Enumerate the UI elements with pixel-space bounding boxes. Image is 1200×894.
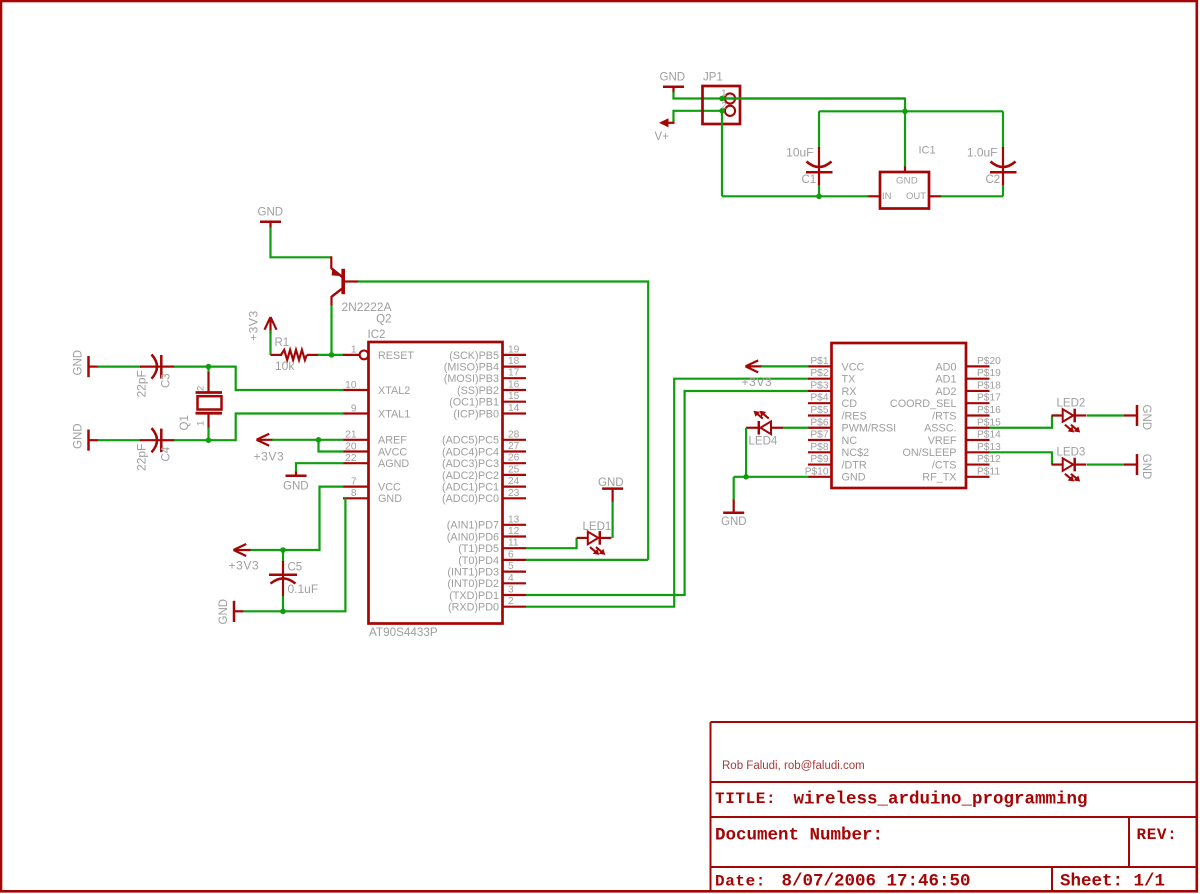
svg-text:P$8: P$8 <box>810 442 828 453</box>
svg-text:28: 28 <box>508 429 520 440</box>
svg-text:(MOSI)PB3: (MOSI)PB3 <box>444 373 499 385</box>
svg-text:+3V3: +3V3 <box>229 558 260 572</box>
svg-text:25: 25 <box>508 464 520 475</box>
svg-text:NC$2: NC$2 <box>842 447 870 459</box>
svg-text:(SCK)PB5: (SCK)PB5 <box>449 350 499 362</box>
svg-text:(T0)PD4: (T0)PD4 <box>458 555 499 567</box>
svg-text:(AIN1)PD7: (AIN1)PD7 <box>447 520 499 532</box>
svg-text:GND: GND <box>73 350 85 376</box>
svg-text:14: 14 <box>508 403 520 414</box>
svg-text:+3V3: +3V3 <box>254 449 285 463</box>
svg-text:1.0uF: 1.0uF <box>967 146 998 160</box>
svg-text:P$17: P$17 <box>977 393 1001 404</box>
svg-text:/DTR: /DTR <box>842 459 867 471</box>
svg-text:CD: CD <box>842 398 858 410</box>
svg-text:GND: GND <box>721 516 747 528</box>
svg-text:(ADC5)PC5: (ADC5)PC5 <box>442 435 499 447</box>
svg-text:RX: RX <box>842 386 857 398</box>
svg-text:/RES: /RES <box>842 410 867 422</box>
svg-text:Rob Faludi, rob@faludi.com: Rob Faludi, rob@faludi.com <box>722 760 865 772</box>
svg-text:/CTS: /CTS <box>932 459 957 471</box>
svg-text:(ADC2)PC2: (ADC2)PC2 <box>442 470 499 482</box>
svg-text:R1: R1 <box>275 337 290 349</box>
svg-text:P$18: P$18 <box>977 380 1001 391</box>
svg-text:TITLE:: TITLE: <box>715 790 776 808</box>
svg-text:P$2: P$2 <box>810 368 828 379</box>
svg-text:ASSC.: ASSC. <box>924 423 956 435</box>
svg-text:15: 15 <box>508 391 520 402</box>
svg-text:2: 2 <box>721 100 726 111</box>
svg-text:17: 17 <box>508 368 520 379</box>
svg-text:(ADC4)PC4: (ADC4)PC4 <box>442 446 499 458</box>
svg-text:8/07/2006 17:46:50: 8/07/2006 17:46:50 <box>782 872 971 892</box>
svg-text:LED1: LED1 <box>583 521 612 533</box>
svg-text:AD2: AD2 <box>935 386 956 398</box>
svg-text:22pF: 22pF <box>135 370 149 397</box>
svg-text:9: 9 <box>351 403 357 414</box>
svg-text:+3V3: +3V3 <box>742 375 773 389</box>
svg-text:(ADC0)PC0: (ADC0)PC0 <box>442 493 499 505</box>
svg-text:Sheet: 1/1: Sheet: 1/1 <box>1060 872 1165 892</box>
svg-text:7: 7 <box>351 476 357 487</box>
svg-text:P$9: P$9 <box>810 454 828 465</box>
svg-text:(SS)PB2: (SS)PB2 <box>457 385 499 397</box>
svg-text:6: 6 <box>508 549 514 560</box>
svg-text:2: 2 <box>508 596 514 607</box>
svg-text:18: 18 <box>508 356 520 367</box>
svg-text:AT90S4433P: AT90S4433P <box>369 626 438 639</box>
svg-text:AVCC: AVCC <box>378 446 407 458</box>
svg-text:Q1: Q1 <box>179 415 191 430</box>
svg-text:26: 26 <box>508 453 520 464</box>
svg-text:TX: TX <box>842 374 856 386</box>
svg-text:(MISO)PB4: (MISO)PB4 <box>444 362 499 374</box>
svg-text:IC1: IC1 <box>919 145 936 157</box>
svg-text:GND: GND <box>378 493 402 505</box>
svg-text:AREF: AREF <box>378 435 407 447</box>
svg-text:2N2222A: 2N2222A <box>341 300 391 314</box>
svg-text:P$20: P$20 <box>977 356 1001 367</box>
svg-text:P$16: P$16 <box>977 405 1001 416</box>
svg-text:LED2: LED2 <box>1057 397 1086 409</box>
svg-text:23: 23 <box>508 488 520 499</box>
svg-text:GND: GND <box>842 472 866 484</box>
svg-text:(INT1)PD3: (INT1)PD3 <box>447 567 499 579</box>
svg-text:P$12: P$12 <box>977 454 1001 465</box>
svg-text:P$13: P$13 <box>977 442 1001 453</box>
svg-text:8: 8 <box>351 488 357 499</box>
svg-text:V+: V+ <box>655 131 670 143</box>
svg-text:P$1: P$1 <box>810 356 828 367</box>
svg-text:19: 19 <box>508 344 520 355</box>
svg-text:C5: C5 <box>288 562 303 574</box>
svg-text:2: 2 <box>196 386 207 391</box>
svg-text:P$10: P$10 <box>805 466 829 477</box>
svg-text:22pF: 22pF <box>135 444 149 471</box>
svg-text:(T1)PD5: (T1)PD5 <box>458 543 499 555</box>
svg-text:IN: IN <box>882 191 892 202</box>
svg-text:10k: 10k <box>275 359 295 373</box>
svg-text:24: 24 <box>508 476 520 487</box>
svg-text:LED4: LED4 <box>749 436 778 448</box>
svg-text:GND: GND <box>73 423 85 449</box>
svg-text:VCC: VCC <box>378 482 401 494</box>
svg-text:RESET: RESET <box>378 350 414 362</box>
svg-text:Date:: Date: <box>715 873 766 891</box>
svg-text:11: 11 <box>508 538 519 549</box>
svg-text:GND: GND <box>258 207 284 219</box>
svg-text:AD1: AD1 <box>935 374 956 386</box>
svg-text:ON/SLEEP: ON/SLEEP <box>902 447 956 459</box>
svg-text:1: 1 <box>721 88 726 99</box>
svg-text:P$14: P$14 <box>977 430 1001 441</box>
svg-text:XTAL1: XTAL1 <box>378 408 410 420</box>
svg-text:27: 27 <box>508 441 520 452</box>
svg-text:GND: GND <box>1140 454 1152 480</box>
svg-text:RF_TX: RF_TX <box>922 472 956 484</box>
svg-text:VCC: VCC <box>842 361 865 373</box>
svg-text:1: 1 <box>196 421 207 426</box>
svg-text:1: 1 <box>351 345 357 356</box>
svg-text:P$3: P$3 <box>810 380 828 391</box>
svg-text:REV:: REV: <box>1137 826 1178 844</box>
svg-text:GND: GND <box>1140 405 1152 431</box>
svg-text:12: 12 <box>508 526 520 537</box>
svg-text:13: 13 <box>508 514 520 525</box>
svg-text:10uF: 10uF <box>786 146 813 160</box>
svg-text:JP1: JP1 <box>703 72 723 84</box>
svg-text:VREF: VREF <box>928 435 957 447</box>
svg-text:P$11: P$11 <box>977 466 1000 477</box>
svg-text:C1: C1 <box>802 174 817 186</box>
svg-text:IC2: IC2 <box>368 329 386 341</box>
svg-text:4: 4 <box>508 573 514 584</box>
svg-text:P$6: P$6 <box>810 417 828 428</box>
svg-text:(ADC1)PC1: (ADC1)PC1 <box>442 482 499 494</box>
svg-text:+3V3: +3V3 <box>247 310 261 341</box>
svg-text:P$5: P$5 <box>810 405 828 416</box>
svg-text:Document Number:: Document Number: <box>715 826 883 846</box>
svg-text:COORD_SEL: COORD_SEL <box>890 398 957 410</box>
svg-text:GND: GND <box>218 599 230 625</box>
svg-text:3: 3 <box>508 585 514 596</box>
svg-text:wireless_arduino_programming: wireless_arduino_programming <box>794 790 1088 810</box>
svg-text:PWM/RSSI: PWM/RSSI <box>842 423 897 435</box>
svg-text:C4: C4 <box>161 446 173 461</box>
svg-text:GND: GND <box>283 480 309 492</box>
svg-text:(OC1)PB1: (OC1)PB1 <box>449 397 499 409</box>
svg-text:(AIN0)PD6: (AIN0)PD6 <box>447 531 499 543</box>
svg-text:P$19: P$19 <box>977 368 1001 379</box>
svg-text:(RXD)PD0: (RXD)PD0 <box>448 602 499 614</box>
svg-text:(INT0)PD2: (INT0)PD2 <box>447 578 499 590</box>
svg-text:GND: GND <box>660 72 686 84</box>
svg-text:C3: C3 <box>161 373 173 388</box>
svg-text:OUT: OUT <box>906 191 926 202</box>
svg-text:NC: NC <box>842 435 858 447</box>
svg-text:/RTS: /RTS <box>932 410 956 422</box>
svg-text:16: 16 <box>508 380 520 391</box>
svg-text:AD0: AD0 <box>935 361 956 373</box>
svg-text:GND: GND <box>896 176 918 187</box>
svg-text:22: 22 <box>345 453 357 464</box>
svg-text:20: 20 <box>345 441 357 452</box>
svg-text:P$15: P$15 <box>977 417 1001 428</box>
svg-text:(ADC3)PC3: (ADC3)PC3 <box>442 458 499 470</box>
svg-text:5: 5 <box>508 561 514 572</box>
svg-text:XTAL2: XTAL2 <box>378 385 410 397</box>
svg-text:GND: GND <box>598 477 624 489</box>
svg-text:Q2: Q2 <box>376 314 391 326</box>
svg-text:0.1uF: 0.1uF <box>288 582 319 596</box>
svg-text:21: 21 <box>345 430 357 441</box>
svg-text:(ICP)PB0: (ICP)PB0 <box>453 408 499 420</box>
svg-text:(TXD)PD1: (TXD)PD1 <box>449 590 499 602</box>
svg-text:C2: C2 <box>986 174 1001 186</box>
svg-text:P$7: P$7 <box>810 430 828 441</box>
svg-text:10: 10 <box>345 380 357 391</box>
svg-text:LED3: LED3 <box>1057 447 1086 459</box>
svg-text:AGND: AGND <box>378 458 409 470</box>
svg-text:P$4: P$4 <box>810 393 828 404</box>
